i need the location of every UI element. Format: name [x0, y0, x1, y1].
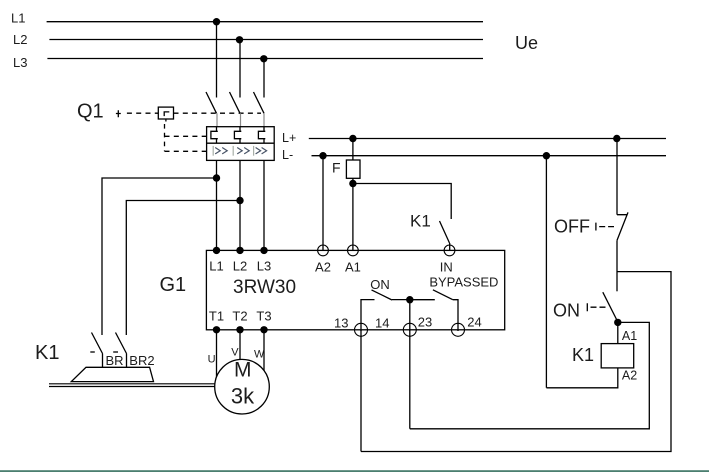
circuit breaker Q1 magnetic release I>> pole 1 [213, 146, 227, 156]
svg-text:Ue: Ue [515, 33, 538, 53]
wire mechanical link to motor (double line) [49, 384, 215, 387]
contactor K1 mechanical slide (trapezoid) [71, 367, 153, 381]
wire L+ rail [309, 138, 666, 140]
terminal circle 24 [452, 323, 465, 336]
svg-text:L3: L3 [13, 55, 27, 70]
svg-text:L1: L1 [11, 11, 25, 26]
wire branch to terminal 13 loop [361, 272, 671, 452]
node junction dot L1 [213, 18, 220, 25]
wire seal-in branch to terminal 14-23 [410, 322, 650, 428]
terminal IN circle [444, 245, 455, 256]
svg-text:3k: 3k [231, 384, 255, 409]
node junction dot L3 [260, 55, 267, 62]
svg-text:L1: L1 [209, 259, 223, 274]
circuit breaker Q1 thermal element pole 2 [234, 127, 241, 144]
circuit breaker Q1 dashed link to magnetic release [165, 150, 207, 152]
wire L2 drop to Q1 pole 2 [239, 40, 241, 98]
circuit breaker Q1 thermal element pole 3 [258, 127, 265, 144]
svg-text:A1: A1 [345, 260, 361, 275]
wire L1 drop to Q1 pole 1 [216, 22, 218, 98]
svg-text:IN: IN [440, 260, 453, 275]
circuit breaker Q1 release box divider [207, 142, 275, 144]
circuit breaker Q1 release box [207, 127, 275, 161]
terminal dot L1 [213, 247, 220, 254]
relay ON contact internal wiring [361, 300, 410, 331]
contactor K1 bypass contact BR tick [90, 351, 95, 353]
contactor K1 bypass contact BR blade [92, 333, 103, 368]
wire L3 drop to Q1 pole 3 [263, 59, 265, 98]
svg-text:L-: L- [282, 148, 293, 162]
wire fuse to A1 [352, 178, 354, 250]
circuit breaker Q1 magnetic release I>> pole 3 [254, 146, 267, 156]
node junction dot pole 1 BR branch [213, 174, 220, 181]
svg-text:K1: K1 [410, 212, 431, 231]
wire L- rail [312, 155, 667, 157]
relay ON contact blade [372, 290, 393, 300]
circuit breaker Q1 trip unit box [158, 107, 173, 119]
wire fuse node to K1 contact [353, 184, 451, 220]
wire OFF to ON [616, 240, 618, 291]
relay BYPASSED contact blade [433, 290, 453, 300]
svg-text:W: W [254, 349, 265, 361]
terminal dot T2 [236, 326, 243, 333]
node junction dot 14-23 link [406, 296, 413, 303]
svg-text:ON: ON [370, 277, 390, 292]
pushbutton ON actuator [587, 303, 605, 311]
svg-text:13: 13 [334, 316, 348, 331]
node junction dot above coil [614, 319, 621, 326]
svg-text:BYPASSED: BYPASSED [429, 275, 498, 290]
wire junction to coil A1 [617, 322, 619, 343]
circuit breaker Q1 pole 2 blade [230, 92, 241, 113]
terminal A2 circle [318, 245, 329, 256]
terminal circle 13 [355, 323, 368, 336]
contactor K1 NO contact blade (IN input) [440, 221, 450, 250]
terminal A1 circle [348, 245, 359, 256]
contactor K1 bypass contact BR2 tick [113, 351, 118, 353]
node junction dot L- A2 branch [319, 152, 326, 159]
svg-text:K1: K1 [572, 345, 594, 365]
motor M1 circle [215, 359, 270, 414]
node junction dot L+ fuse branch [349, 135, 356, 142]
wire junction to terminal 14-23 [409, 300, 411, 331]
node junction dot L- return branch [543, 152, 550, 159]
circuit breaker Q1 dashed trip linkage vertical [165, 119, 166, 151]
svg-text:23: 23 [418, 315, 432, 330]
circuit breaker Q1 dashed link actuator to trip box [127, 112, 158, 114]
wire L3 bus [47, 58, 483, 60]
wire branch pole 2 to BR2 contact [126, 201, 240, 336]
svg-text:G1: G1 [160, 274, 187, 296]
svg-text:BR2: BR2 [129, 353, 154, 368]
svg-text:T3: T3 [256, 309, 271, 324]
circuit breaker Q1 pole 3 blade [254, 92, 265, 113]
terminal dot L3 [260, 247, 267, 254]
bottom separator teal line [0, 470, 709, 472]
wire T1 to motor U [216, 330, 218, 378]
wire L+ to fuse [352, 139, 354, 161]
wire T3 to motor W [263, 330, 265, 371]
svg-text:L2: L2 [233, 259, 247, 274]
contactor K1 bypass contact BR2 blade [116, 333, 127, 368]
svg-text:A2: A2 [622, 368, 637, 382]
circuit breaker Q1 dashed link to thermal release [165, 135, 207, 137]
circuit breaker Q1 manual actuator cross [116, 110, 121, 117]
svg-text:L3: L3 [257, 259, 271, 274]
node junction dot L+ control branch [613, 135, 620, 142]
wire pole 1 blade to release box [216, 113, 218, 126]
contactor coil K1 body [601, 344, 634, 368]
circuit breaker Q1 pole 1 blade [206, 92, 217, 113]
svg-text:F: F [332, 160, 341, 176]
svg-text:3RW30: 3RW30 [233, 277, 296, 298]
svg-text:V: V [231, 347, 239, 359]
svg-text:L+: L+ [282, 131, 296, 145]
svg-text:ON: ON [553, 301, 580, 321]
fuse F body [346, 160, 360, 178]
wire pole 2 blade to release box [240, 113, 242, 126]
wire branch pole 1 to BR contact [102, 178, 217, 335]
circuit breaker Q1 thermal element pole 1 [211, 127, 218, 144]
terminal dot T3 [260, 326, 267, 333]
svg-text:OFF: OFF [554, 217, 590, 237]
node junction dot L2 [236, 36, 243, 43]
svg-text:A1: A1 [622, 329, 637, 343]
terminal dot L2 [236, 247, 243, 254]
svg-text:T2: T2 [232, 309, 247, 324]
circuit breaker Q1 trip unit latch mark [164, 112, 169, 116]
wire L2 bus [49, 39, 483, 41]
wire pole 3 output to starter L3 [263, 160, 265, 250]
relay BYPASSED contact internal wiring [410, 300, 458, 331]
svg-text:Q1: Q1 [77, 101, 104, 123]
svg-text:U: U [208, 354, 216, 366]
wire pole 1 output to starter L1 [216, 160, 218, 250]
wire coil A2 return to L- [546, 156, 617, 388]
circuit breaker Q1 dashed link trip box to poles [174, 112, 262, 114]
pushbutton OFF NC contact [617, 212, 628, 240]
circuit breaker Q1 magnetic release I>> pole 2 [233, 146, 249, 156]
wire L+ to OFF button [616, 139, 618, 215]
svg-text:K1: K1 [35, 342, 59, 364]
wire L1 bus [47, 21, 483, 23]
node junction dot pole 2 BR2 branch [236, 197, 243, 204]
wire T2 to motor V [239, 330, 241, 362]
svg-text:BR: BR [106, 353, 124, 368]
svg-text:M: M [234, 358, 252, 381]
wire pole 3 blade to release box [263, 113, 265, 126]
pushbutton ON NO contact blade [603, 292, 618, 321]
svg-text:A2: A2 [315, 260, 331, 275]
terminal dot T1 [213, 326, 220, 333]
terminal circle 14-23 [403, 323, 416, 336]
wire pole 2 output to starter L2 [239, 160, 241, 250]
wire A2 drop from L- [322, 156, 324, 251]
svg-text:14: 14 [375, 316, 389, 331]
node junction dot below fuse [349, 180, 356, 187]
svg-text:T1: T1 [209, 309, 224, 324]
pushbutton OFF actuator [596, 223, 614, 231]
soft starter 3RW30 box [206, 250, 504, 329]
svg-text:24: 24 [467, 315, 481, 330]
svg-text:L2: L2 [13, 32, 27, 47]
